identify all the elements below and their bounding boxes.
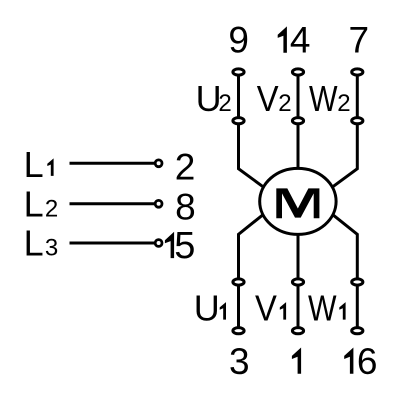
svg-text:L: L (24, 144, 44, 185)
svg-text:4: 4 (290, 20, 311, 61)
svg-text:2: 2 (337, 90, 350, 117)
svg-text:L: L (24, 184, 44, 225)
svg-text:9: 9 (228, 20, 249, 61)
svg-text:3: 3 (45, 234, 58, 261)
svg-text:7: 7 (349, 20, 370, 61)
svg-text:8: 8 (175, 187, 196, 228)
svg-text:W: W (308, 289, 337, 329)
svg-text:2: 2 (278, 90, 291, 117)
svg-text:2: 2 (45, 196, 58, 223)
svg-text:5: 5 (174, 225, 195, 267)
svg-text:3: 3 (229, 341, 250, 382)
svg-text:2: 2 (218, 90, 231, 117)
svg-text:V: V (255, 289, 277, 329)
svg-text:6: 6 (357, 341, 378, 382)
svg-text:W: W (309, 79, 338, 119)
svg-text:2: 2 (175, 147, 196, 188)
svg-text:U: U (194, 288, 220, 329)
svg-text:L: L (24, 222, 44, 263)
svg-text:V: V (257, 80, 279, 120)
